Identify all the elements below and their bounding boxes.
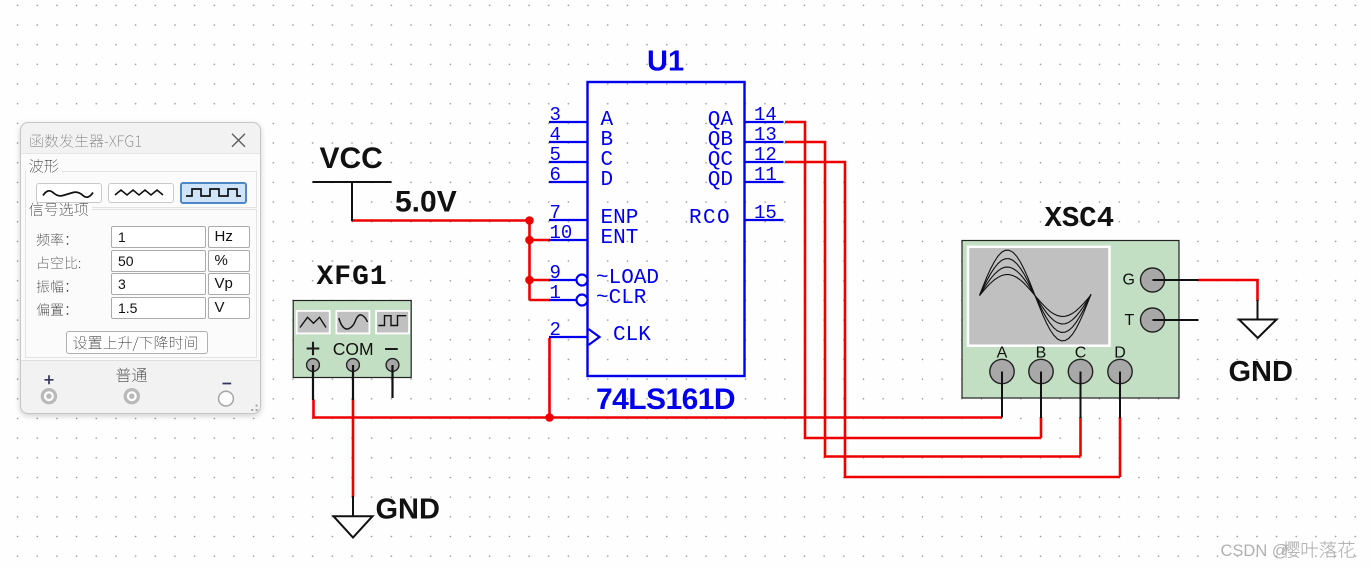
svg-text:13: 13 (754, 124, 777, 146)
svg-text:14: 14 (754, 104, 777, 126)
svg-text:12: 12 (754, 144, 777, 166)
svg-text:15: 15 (754, 202, 777, 224)
svg-text:G: G (1123, 272, 1135, 289)
svg-text:5.0V: 5.0V (395, 186, 457, 219)
svg-text:7: 7 (550, 202, 561, 224)
svg-text:1: 1 (550, 282, 561, 304)
svg-text:A: A (997, 345, 1008, 362)
svg-text:~CLR: ~CLR (596, 287, 647, 310)
svg-text:9: 9 (550, 262, 561, 284)
svg-text:D: D (1114, 345, 1126, 362)
svg-text:B: B (1036, 345, 1047, 362)
svg-text:XFG1: XFG1 (317, 262, 388, 293)
svg-text:ENT: ENT (601, 227, 639, 250)
svg-text:10: 10 (550, 222, 573, 244)
svg-text:GND: GND (376, 493, 440, 525)
svg-text:4: 4 (550, 124, 561, 146)
svg-text:U1: U1 (647, 46, 684, 78)
svg-text:6: 6 (550, 164, 561, 186)
svg-text:VCC: VCC (320, 142, 383, 175)
svg-text:5: 5 (550, 144, 561, 166)
svg-text:GND: GND (1229, 356, 1293, 388)
svg-text:C: C (1075, 345, 1087, 362)
svg-text:T: T (1125, 312, 1135, 329)
svg-text:QD: QD (708, 169, 733, 192)
svg-text:XSC4: XSC4 (1045, 202, 1115, 235)
svg-text:CSDN @: CSDN @ (1221, 542, 1289, 560)
svg-text:CLK: CLK (613, 324, 651, 347)
svg-text:11: 11 (754, 164, 777, 186)
svg-text:RCO: RCO (689, 207, 731, 230)
svg-text:2: 2 (550, 319, 561, 341)
svg-text:3: 3 (550, 104, 561, 126)
svg-text:COM: COM (333, 339, 374, 359)
svg-text:D: D (601, 169, 614, 192)
svg-text:74LS161D: 74LS161D (596, 383, 735, 416)
